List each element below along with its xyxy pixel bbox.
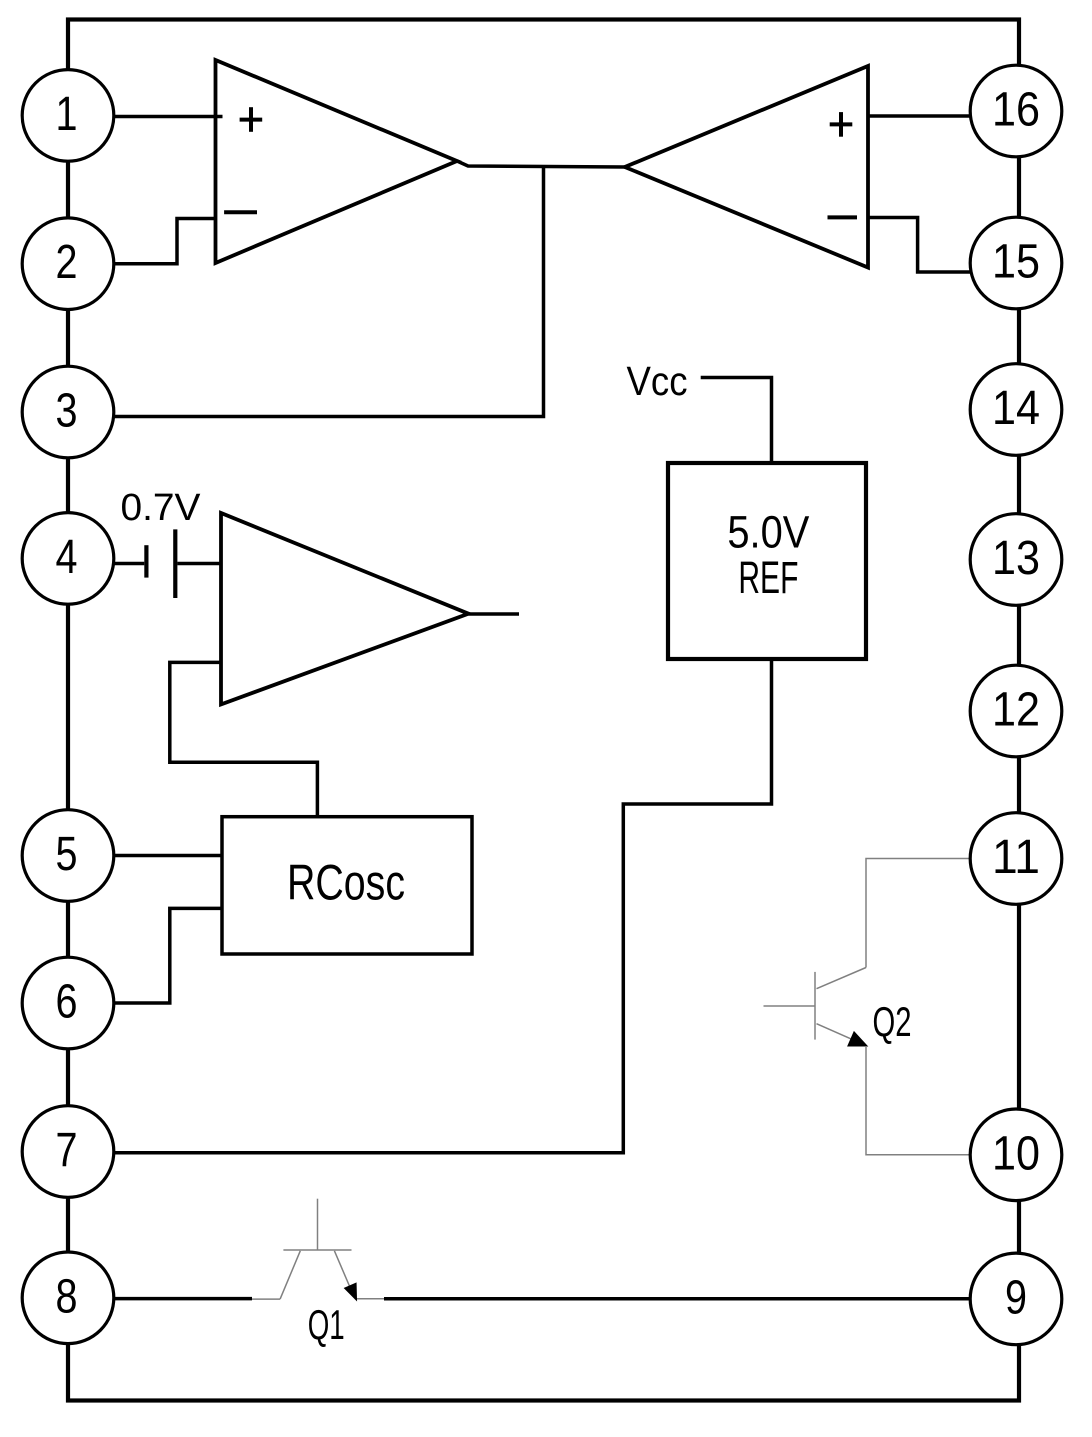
svg-text:REF: REF [738, 552, 798, 603]
U1 minus input label [224, 210, 257, 214]
pin 3 [22, 366, 114, 458]
pin 8 [22, 1252, 114, 1344]
svg-text:12: 12 [992, 684, 1040, 737]
svg-text:5.0V: 5.0V [727, 507, 810, 558]
op-amp U1 (left, triangle) [216, 60, 458, 263]
pin 10 [970, 1109, 1062, 1201]
pin 9 [970, 1253, 1062, 1345]
pin 4 [22, 513, 114, 605]
wire Q1 to pin9 [384, 1297, 971, 1301]
pin 5 [22, 810, 114, 902]
svg-text:16: 16 [992, 84, 1040, 137]
RCosc oscillator block [222, 817, 472, 954]
5.0V REF regulator block [668, 463, 866, 659]
wire pin5 to RCosc [112, 854, 222, 858]
wire REF output to pin7 [112, 659, 772, 1153]
pin 7 [22, 1106, 114, 1198]
wire pin8 to Q1 [112, 1297, 252, 1301]
svg-text:Q2: Q2 [873, 998, 912, 1045]
U2 minus input label [828, 215, 858, 219]
wire pin2 to U1 - input [112, 219, 216, 264]
svg-text:9: 9 [1005, 1271, 1027, 1324]
pin 6 [22, 957, 114, 1049]
wire U2 + input to pin16 [868, 114, 971, 118]
wire comparator - input to RCosc [170, 662, 318, 816]
pin 16 [970, 65, 1062, 157]
svg-text:Q1: Q1 [308, 1301, 345, 1348]
capacitor plate left [144, 545, 148, 577]
Q2 emitter arrowhead [849, 1033, 866, 1046]
U2 plus input label [830, 112, 853, 137]
op-amp U2 (right, triangle) [625, 66, 868, 268]
svg-text:11: 11 [992, 831, 1040, 884]
transistor Q1 [252, 1199, 384, 1299]
Q1 emitter arrowhead [345, 1284, 356, 1299]
svg-text:15: 15 [992, 236, 1040, 289]
wire capacitor to comparator + input [177, 562, 221, 566]
pin 2 [22, 218, 114, 310]
svg-text:0.7V: 0.7V [121, 487, 202, 529]
svg-text:10: 10 [992, 1127, 1040, 1180]
svg-text:Vcc: Vcc [627, 358, 688, 404]
wire output node to pin3 [112, 166, 544, 417]
svg-text:14: 14 [992, 382, 1040, 435]
svg-text:4: 4 [56, 531, 78, 584]
wire joining U1 and U2 outputs [457, 161, 625, 167]
pin 13 [970, 514, 1062, 606]
svg-text:7: 7 [56, 1124, 78, 1177]
svg-text:5: 5 [56, 828, 78, 881]
pin 14 [970, 364, 1062, 456]
wire pin1 to U1 + input [112, 115, 223, 119]
U1 plus input label [240, 107, 263, 132]
pin 15 [970, 217, 1062, 309]
svg-text:2: 2 [56, 236, 78, 289]
svg-text:13: 13 [992, 532, 1040, 585]
pin 11 [970, 813, 1062, 905]
wire comparator output stub [469, 612, 520, 616]
transistor Q2 [764, 859, 971, 1155]
svg-text:RCosc: RCosc [287, 853, 405, 910]
svg-text:3: 3 [56, 385, 78, 438]
pin 1 [22, 70, 114, 162]
wire Vcc to REF block [701, 378, 772, 464]
pin 12 [970, 665, 1062, 757]
wire U2 - input to pin15 [868, 218, 970, 273]
capacitor plate right [173, 529, 177, 598]
wire pin6 to RCosc [112, 908, 222, 1003]
svg-text:6: 6 [56, 976, 78, 1029]
svg-text:8: 8 [56, 1270, 78, 1323]
svg-text:1: 1 [56, 88, 78, 141]
comparator U3 (triangle) [221, 513, 469, 704]
wire pin4 to capacitor [112, 562, 144, 566]
